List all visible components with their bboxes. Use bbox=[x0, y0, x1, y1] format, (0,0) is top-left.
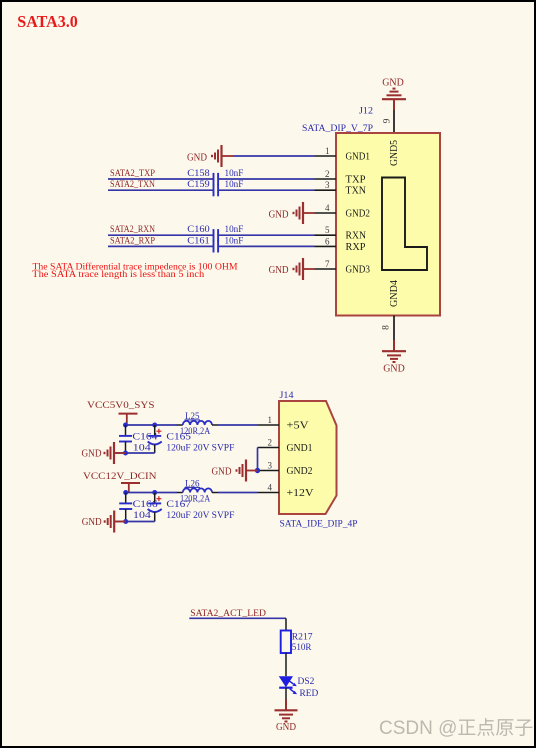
net label SATA2_RXP bbox=[110, 236, 155, 246]
C166 value 104 bbox=[133, 511, 151, 521]
C165 value 120uF 20V SVPF bbox=[166, 444, 234, 454]
junction VCC12V / C166 bbox=[123, 490, 128, 495]
net label SATA2_ACT_LED bbox=[190, 609, 266, 619]
wire C166/C167 bottom rail bbox=[116, 521, 155, 523]
J14 pin 2 GND1 bbox=[258, 438, 313, 454]
junction bottom rail 12V bbox=[123, 519, 128, 524]
C161 value 10nF bbox=[225, 236, 244, 246]
resistor R217 bbox=[281, 631, 291, 654]
wire SATA2_TXN right bbox=[218, 189, 314, 191]
C165 designator bbox=[166, 433, 191, 443]
L26 value 120R,2A bbox=[180, 494, 210, 504]
J12 pin name GND4 (rotated) bbox=[389, 280, 400, 307]
ground GND at J12 pin 7 bbox=[294, 258, 315, 280]
junction bottom rail 5V bbox=[123, 451, 128, 456]
ground GND at J12 pin 1 bbox=[212, 145, 233, 167]
J14 part name SATA_IDE_DIP_4P bbox=[280, 519, 358, 529]
J12 pin 1 GND1 bbox=[315, 146, 371, 162]
junction J14 pin 3 bbox=[255, 468, 260, 473]
L25 value 120R,2A bbox=[180, 427, 210, 437]
C164 designator bbox=[132, 433, 157, 443]
L26 designator bbox=[185, 479, 201, 489]
capacitor C161 bbox=[214, 240, 219, 252]
C167 value 120uF 20V SVPF bbox=[166, 511, 234, 521]
J12 pin 4 GND2 bbox=[315, 203, 371, 219]
J14 pin 4 +12V bbox=[258, 483, 314, 499]
C158 value 10nF bbox=[225, 169, 244, 179]
note text line 2 bbox=[32, 269, 205, 279]
wire VCC5V0 rail bbox=[126, 424, 178, 426]
C160 value 10nF bbox=[225, 225, 244, 235]
wire SATA2_RXN right bbox=[218, 234, 314, 236]
connector J12 body bbox=[336, 133, 440, 316]
ground GND bottom of J12 bbox=[382, 340, 406, 362]
capacitor C159 bbox=[214, 184, 219, 196]
inductor L26 bbox=[177, 488, 218, 492]
C164 value 104 bbox=[133, 444, 151, 454]
J12 pin name GND5 (rotated) bbox=[389, 140, 400, 166]
ground GND below DS2 bbox=[275, 710, 298, 721]
wire SATA2_RXP left bbox=[108, 245, 213, 247]
J12 pin 3 TXN bbox=[315, 180, 367, 196]
connector J14 body bbox=[279, 401, 337, 514]
J14 pin 3 GND2 bbox=[258, 461, 313, 477]
wire SATA2_RXN left bbox=[108, 234, 213, 236]
C159 designator bbox=[187, 180, 210, 190]
capacitor C166 bbox=[119, 493, 132, 522]
LED DS2 bbox=[279, 676, 297, 694]
C160 designator bbox=[187, 225, 210, 235]
DS2 designator bbox=[298, 677, 315, 687]
R217 designator bbox=[292, 632, 313, 642]
J12 pin 9 bbox=[383, 110, 395, 133]
wire DS2 to ground bbox=[285, 688, 287, 700]
title SATA3.0 bbox=[17, 12, 78, 31]
wire R217 to DS2 bbox=[285, 653, 287, 676]
ground GND at J14 pins 2-3 bbox=[237, 460, 258, 482]
capacitor C158 bbox=[214, 173, 219, 185]
J12 pin 5 RXN bbox=[315, 225, 367, 241]
C166 designator bbox=[133, 500, 158, 510]
net label SATA2_TXP bbox=[110, 169, 155, 179]
wire C164/C165 bottom rail bbox=[116, 452, 155, 454]
wire L25 to J14 pin 1 bbox=[218, 424, 258, 426]
junction VCC5V0 / C164 bbox=[123, 423, 128, 428]
junction C165 tap bbox=[152, 423, 157, 428]
wire SATA2_RXP right bbox=[218, 245, 314, 247]
connector key L-shape bbox=[382, 178, 427, 271]
L25 designator bbox=[185, 412, 201, 422]
C167 designator bbox=[166, 500, 191, 510]
wire to R217 bbox=[285, 618, 287, 630]
J12 pin 6 RXP bbox=[315, 236, 366, 252]
wire VCC12V rail bbox=[126, 492, 177, 494]
wire SATA2_ACT_LED bbox=[189, 617, 286, 619]
ground GND top of J12 bbox=[382, 89, 406, 110]
capacitor C167 bbox=[148, 493, 162, 522]
wire J14 pin2 to pin3 bbox=[257, 448, 259, 471]
J12 pin 2 TXP bbox=[315, 169, 366, 185]
wire SATA2_TXP left bbox=[108, 178, 213, 180]
net label SATA2_TXN bbox=[110, 180, 155, 190]
net label SATA2_RXN bbox=[110, 225, 155, 235]
wire L26 to J14 pin 4 bbox=[218, 492, 258, 494]
power port VCC5V0_SYS bbox=[87, 401, 155, 425]
capacitor C160 bbox=[214, 229, 219, 241]
inductor L25 bbox=[177, 421, 218, 425]
C159 value 10nF bbox=[225, 180, 244, 190]
ground GND at J12 pin 4 bbox=[294, 202, 315, 224]
stem to ground below DS2 bbox=[285, 700, 287, 711]
J12 pin 8 bbox=[382, 316, 395, 341]
J12 pin 7 GND3 bbox=[315, 259, 371, 275]
J12 part name SATA_DIP_V_7P bbox=[302, 124, 373, 134]
junction C167 tap bbox=[152, 490, 157, 495]
wire GND to J12 pin 1 bbox=[233, 155, 315, 157]
watermark bbox=[379, 713, 533, 740]
C161 designator bbox=[187, 236, 210, 246]
C158 designator bbox=[187, 169, 210, 179]
wire SATA2_TXN left bbox=[108, 189, 213, 191]
capacitor C164 bbox=[119, 425, 132, 453]
power port VCC12V_DCIN bbox=[83, 472, 157, 493]
capacitor C165 bbox=[148, 425, 162, 453]
ground GND at C164/C165 bbox=[105, 442, 126, 464]
J14 pin 1 +5V bbox=[258, 415, 309, 431]
wire SATA2_TXP right bbox=[218, 178, 314, 180]
DS2 value RED bbox=[300, 689, 319, 699]
ground GND at C166/C167 bbox=[105, 511, 126, 533]
J12 designator bbox=[359, 106, 373, 116]
R217 value 510R bbox=[292, 643, 312, 653]
note text line 1 bbox=[33, 262, 238, 272]
J14 designator bbox=[280, 391, 294, 401]
